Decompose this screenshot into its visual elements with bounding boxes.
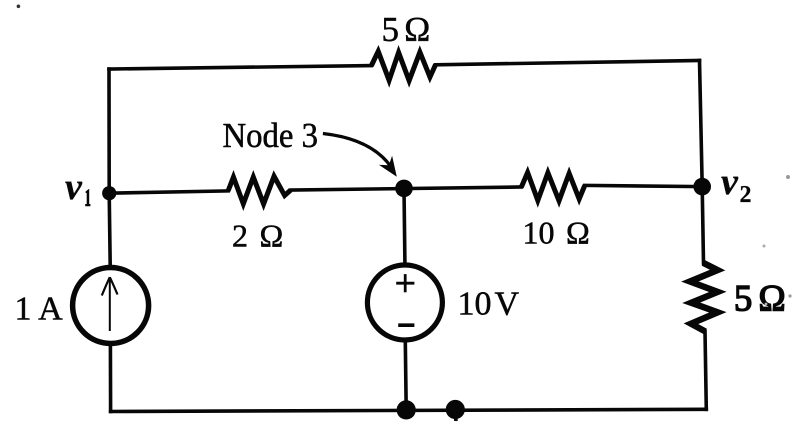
bottom junction dot left [397,400,416,419]
svg-text:2Ω: 2Ω [232,218,283,254]
node-3 pointer arrow curve [323,134,392,168]
plus sign [396,274,414,325]
wire left vertical [109,69,110,266]
resistor 5ohm right vertical [682,261,725,334]
scan speck top-left [17,5,21,9]
svg-text:5Ω: 5Ω [734,278,786,319]
resistor 5ohm top [369,45,438,88]
wire center branch upper [402,188,406,262]
svg-text:Node 3: Node 3 [223,117,319,155]
stub below bottom junction [454,410,458,421]
wire middle left [109,191,228,193]
wire bottom horizontal [111,409,707,411]
resistor 10ohm [519,166,587,208]
wire top-right horizontal [436,61,700,65]
resistor 2ohm [226,170,292,211]
svg-text:v: v [721,161,739,203]
wire left vertical lower [109,345,113,412]
wire middle center [291,187,522,190]
wire top-left horizontal [109,66,371,69]
wire right vertical upper [700,61,704,264]
svg-text:10V: 10V [458,286,520,323]
wire right vertical lower [705,331,706,409]
wire center branch lower [403,341,408,410]
node 3 dot [395,180,413,198]
svg-text:2: 2 [740,182,752,208]
svg-text:5Ω: 5Ω [382,10,431,49]
node v1 dot [102,186,116,200]
scan specks right edge [786,175,790,179]
current source arrow [102,277,118,331]
svg-text:v: v [65,166,83,208]
voltage source V1 circle [367,265,442,340]
minus sign [398,323,414,327]
svg-text:1 A: 1 A [15,291,64,328]
node v2 dot [693,178,711,196]
current source I1 circle [73,268,149,344]
bottom junction dot right [446,400,465,419]
svg-text:10Ω: 10Ω [523,215,590,251]
node-3 pointer arrowhead [379,156,397,177]
wire middle right [585,185,702,186]
